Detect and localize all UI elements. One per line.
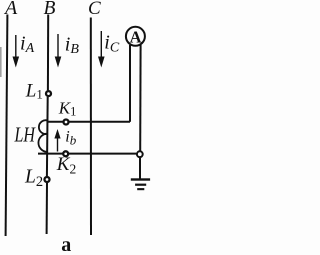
current arrow i_A xyxy=(13,35,20,68)
terminal K1 xyxy=(64,120,69,125)
current arrow i_b xyxy=(54,129,60,152)
node ground junction xyxy=(137,151,143,157)
ammeter PA1 xyxy=(126,27,145,47)
phase line A xyxy=(6,15,8,237)
current arrow i_C xyxy=(98,31,105,68)
wire K1 xyxy=(48,121,130,123)
svg-text:C: C xyxy=(88,0,101,19)
wire ammeter left lead xyxy=(129,45,131,122)
terminal L1 xyxy=(46,91,51,96)
svg-text:A: A xyxy=(130,28,142,47)
ground xyxy=(131,158,150,191)
wire ammeter right lead xyxy=(139,45,141,151)
current arrow i_B xyxy=(55,34,62,68)
svg-text:LH: LH xyxy=(14,123,36,147)
svg-text:A: A xyxy=(3,0,18,19)
current transformer LH secondary winding xyxy=(38,120,48,152)
phase line B xyxy=(47,15,49,235)
svg-text:a: a xyxy=(61,234,71,255)
terminal L2 xyxy=(45,177,50,182)
phase line C xyxy=(90,18,92,236)
svg-text:B: B xyxy=(44,0,56,19)
terminal K2 xyxy=(63,151,68,156)
wire K2 xyxy=(38,153,136,155)
